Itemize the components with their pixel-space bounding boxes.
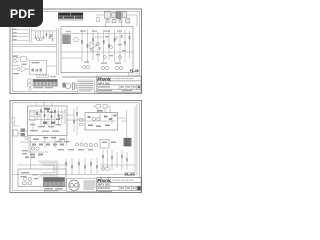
svg-text:PDF: PDF (10, 7, 35, 21)
svg-text:FL-06: FL-06 (130, 69, 139, 73)
